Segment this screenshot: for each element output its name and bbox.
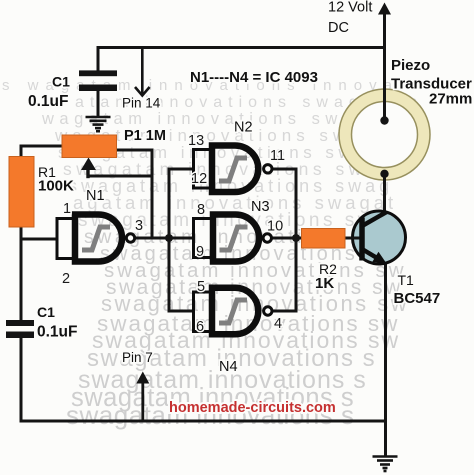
svg-text:N4: N4 <box>219 359 238 375</box>
svg-text:9: 9 <box>196 244 204 260</box>
svg-text:5: 5 <box>197 279 205 295</box>
svg-text:10: 10 <box>267 219 283 235</box>
svg-text:4: 4 <box>274 316 282 332</box>
svg-text:N2: N2 <box>234 120 253 136</box>
svg-text:C1: C1 <box>52 74 70 90</box>
svg-text:2: 2 <box>62 271 70 287</box>
svg-text:Piezo: Piezo <box>391 57 430 74</box>
svg-text:T1: T1 <box>398 272 415 288</box>
svg-text:1K: 1K <box>315 275 334 292</box>
svg-text:6: 6 <box>196 319 204 335</box>
svg-text:1: 1 <box>63 201 71 217</box>
svg-text:13: 13 <box>188 133 204 149</box>
svg-text:100K: 100K <box>38 178 74 195</box>
svg-text:P1 1M: P1 1M <box>124 128 166 144</box>
svg-text:N1: N1 <box>86 188 105 204</box>
svg-text:BC547: BC547 <box>394 290 441 307</box>
svg-text:DC: DC <box>328 20 349 36</box>
svg-text:N1----N4 = IC 4093: N1----N4 = IC 4093 <box>190 69 318 86</box>
svg-text:0.1uF: 0.1uF <box>28 93 68 110</box>
svg-text:12 Volt: 12 Volt <box>328 0 372 16</box>
svg-text:12: 12 <box>191 171 207 187</box>
svg-text:11: 11 <box>270 148 285 164</box>
svg-text:Pin 14: Pin 14 <box>122 96 161 111</box>
svg-text:8: 8 <box>197 202 205 218</box>
svg-text:0.1uF: 0.1uF <box>37 324 77 341</box>
svg-text:3: 3 <box>135 218 143 234</box>
svg-text:27mm: 27mm <box>429 91 472 108</box>
svg-text:Pin 7: Pin 7 <box>122 350 153 365</box>
svg-text:N3: N3 <box>251 199 270 215</box>
svg-text:homemade-circuits.com: homemade-circuits.com <box>169 400 336 416</box>
svg-text:C1: C1 <box>37 304 55 320</box>
